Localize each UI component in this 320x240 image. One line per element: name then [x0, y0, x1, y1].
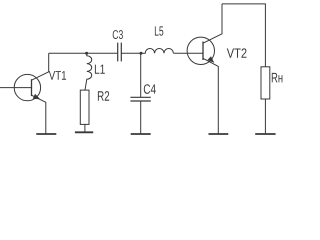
ground Rn	[255, 133, 275, 135]
inductor L1	[85, 53, 92, 90]
wire L5 to VT2 base	[173, 52, 203, 54]
resistor Rn (load)	[261, 67, 270, 99]
wire base lead VT1	[0, 87, 32, 89]
node junction C4/L5	[140, 52, 143, 55]
wire collector VT1	[32, 53, 49, 80]
wire emitter VT2	[203, 58, 218, 133]
label C4	[144, 84, 156, 94]
resistor R2	[80, 90, 89, 124]
ground R2	[75, 131, 93, 133]
ground VT1	[36, 133, 56, 135]
wire top-right horizontal	[222, 4, 265, 67]
label L5	[155, 26, 163, 35]
capacitor C4	[130, 53, 150, 133]
label VT1	[49, 71, 66, 80]
inductor L5	[141, 49, 173, 54]
ground VT2	[209, 133, 229, 135]
transistor VT2	[187, 4, 222, 134]
wire Rn to ground	[264, 99, 266, 134]
ground C4	[131, 133, 151, 135]
wire C3 to node	[121, 52, 141, 54]
label R2	[98, 91, 109, 101]
label VT2	[227, 48, 247, 57]
wire emitter VT1	[32, 95, 46, 133]
label Rn	[272, 73, 283, 82]
capacitor C3	[118, 43, 122, 62]
label C3	[113, 30, 123, 39]
node junction L1	[85, 52, 88, 55]
wire collector VT2	[203, 4, 222, 43]
transistor VT1	[0, 53, 49, 133]
label L1	[95, 65, 105, 74]
wire top-left horizontal	[49, 52, 118, 54]
wire R2 to ground	[84, 124, 86, 132]
